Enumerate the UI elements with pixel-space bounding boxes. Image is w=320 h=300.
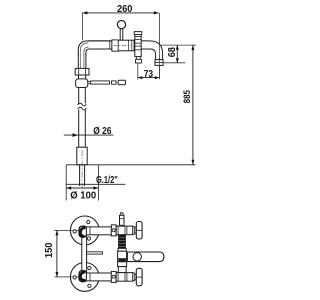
top supply pipe to valve	[86, 227, 111, 235]
pipe break symbol	[78, 103, 87, 110]
bottom handle stem	[135, 274, 137, 279]
svg-text:885: 885	[182, 90, 193, 104]
dimension 885 (right)	[182, 45, 194, 165]
svg-text:68: 68	[167, 47, 178, 58]
dimension Ø100	[66, 186, 98, 201]
svg-text:150: 150	[44, 242, 55, 258]
hand-shower outlet stub below diverter	[136, 57, 142, 63]
dimension 68	[161, 45, 196, 63]
top wall flange	[70, 216, 99, 245]
union nut on riser	[75, 68, 89, 75]
label Ø26 with leader arrow	[64, 125, 114, 137]
floor flange Ø100 (below floor)	[66, 165, 98, 201]
floor line / 885 bottom reference	[66, 164, 195, 166]
pipe stub below floor (G.1/2 thread)	[80, 165, 85, 186]
mixer housing on pipe	[112, 40, 134, 51]
svg-text:Ø 26: Ø 26	[93, 125, 111, 137]
stop valve lever (pointing right)	[88, 80, 126, 84]
vertical connecting pipe between flanges	[82, 234, 87, 272]
bottom valve body	[116, 273, 133, 282]
bottom valve bonnet	[133, 273, 135, 281]
top valve body	[116, 226, 133, 235]
column knurled band (dark)	[118, 235, 126, 249]
riser centerline	[81, 150, 83, 193]
svg-text:260: 260	[117, 3, 133, 15]
dimension 150 (left)	[44, 230, 71, 277]
spout mount section of column	[118, 251, 127, 266]
bottom valve flange ring with screw	[111, 271, 116, 282]
bottom supply pipe to valve	[86, 273, 111, 281]
label G.1/2" with leader	[66, 175, 125, 186]
top handle stem	[135, 228, 137, 233]
column light band	[118, 248, 126, 251]
extension line spout axis (right of 260 / 73 dims)	[158, 13, 160, 79]
svg-text:Ø 100: Ø 100	[70, 190, 96, 202]
riser pipe elbow and upper riser	[78, 41, 112, 69]
bottom wall flange	[70, 263, 99, 292]
top valve flange ring with screw	[111, 225, 116, 236]
svg-text:G.1/2": G.1/2"	[96, 175, 118, 186]
svg-text:73: 73	[144, 69, 154, 80]
floor sleeve	[77, 147, 87, 165]
spout elbow (curved down)	[141, 41, 162, 60]
top valve bonnet	[133, 227, 135, 235]
horizontal supply pipe (top)	[88, 41, 112, 49]
stop valve tee body	[76, 79, 88, 88]
bottom inlet elbow (bold)	[79, 271, 87, 282]
dimension 73	[138, 42, 160, 80]
swivel spout (capsule)	[127, 252, 163, 262]
top inlet elbow (bold)	[79, 226, 87, 237]
diverter pull stem on column top	[120, 213, 125, 226]
diverter knob	[117, 21, 125, 41]
diverter body	[134, 32, 142, 57]
spout end cap / aerator	[155, 60, 163, 66]
top cross handle (edge view)	[136, 222, 142, 240]
dimension 260 (top)	[82, 3, 158, 40]
short pipe between nut and tee	[79, 75, 86, 79]
column lower plain section	[118, 267, 126, 273]
bottom cross handle (edge view)	[136, 268, 142, 286]
hand shower hook rod	[87, 252, 103, 254]
lower riser pipe with break	[79, 88, 86, 148]
